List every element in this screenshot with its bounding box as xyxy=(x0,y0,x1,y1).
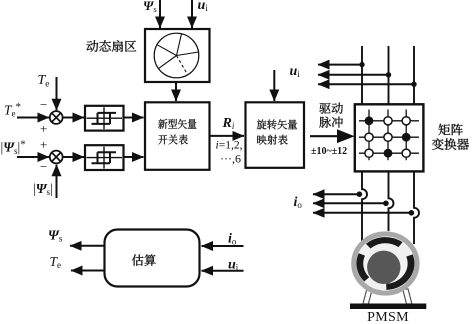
output phase line 1 with sensor loop xyxy=(362,171,367,242)
label 估算 (estimate) xyxy=(132,254,156,265)
PMSM stator arc left xyxy=(360,254,367,279)
current sensor dot phase 3 xyxy=(409,210,415,216)
wire drive pulses into matrix converter xyxy=(310,135,338,137)
label 矩阵 (matrix) xyxy=(438,124,462,136)
label 旋转矢量 (block line 1) xyxy=(257,119,297,129)
sector circle xyxy=(154,33,199,78)
wire io tap phase 2 xyxy=(313,202,386,204)
block matrix converter xyxy=(355,104,424,171)
wire hysteresis 1 to switching table xyxy=(124,117,144,119)
block estimator xyxy=(105,230,200,287)
sector boundary line 216deg xyxy=(159,56,177,69)
wire Ri switching table to mapping table xyxy=(211,135,245,137)
svg-text:i=1,2,: i=1,2, xyxy=(216,140,243,152)
wire junction 2 to hysteresis comparator 2 xyxy=(63,156,84,158)
wire hysteresis 2 to switching table xyxy=(124,156,144,158)
wire ui tap phase 2 xyxy=(318,74,389,76)
matrix switch node r3c1 (off) xyxy=(365,149,373,157)
wire Te* into summing junction 1 xyxy=(17,117,49,119)
block rotating vector mapping table xyxy=(246,102,305,168)
wire ui into sector block xyxy=(191,0,193,28)
svg-text:|Ψs|: |Ψs| xyxy=(33,181,53,197)
label 脉冲 (pulse) xyxy=(319,117,342,128)
wire Te estimate out xyxy=(71,270,104,272)
wire io tap phase 1 xyxy=(313,193,359,195)
summing junction 1 xyxy=(50,111,63,124)
output phase line 3 with sensor loop xyxy=(414,171,419,244)
svg-text:±10~±12: ±10~±12 xyxy=(311,146,347,157)
hysteresis comparator 2 xyxy=(85,145,124,170)
matrix switch node r2c1 (off) xyxy=(365,133,373,141)
block new vector switching table xyxy=(145,102,210,170)
junction dot phase 1 xyxy=(359,62,364,67)
label 开关表 (block line 2) xyxy=(158,135,187,145)
sector boundary line 151deg xyxy=(157,45,177,56)
wire ui tap phase 1 xyxy=(318,64,362,66)
sector boundary line 300deg xyxy=(177,56,188,75)
label 新型矢量 (block line 1) xyxy=(158,119,196,129)
block dynamic sector xyxy=(145,29,210,82)
sector boundary line 9deg xyxy=(177,52,199,56)
PMSM base bar xyxy=(350,304,426,310)
wire ui into estimator xyxy=(202,270,244,272)
wire |Ψs| feedback up into junction 2 xyxy=(56,165,58,198)
matrix switch node r1c2 (off) xyxy=(384,117,392,125)
wire io tap phase 3 xyxy=(313,212,411,214)
label 驱动 (drive) xyxy=(319,103,342,114)
wire Ψs estimate out xyxy=(70,245,104,247)
PMSM right leg xyxy=(403,289,412,304)
summing junction 2 xyxy=(50,151,63,164)
junction dot phase 3 xyxy=(411,82,416,87)
PMSM stator arc top xyxy=(368,240,400,246)
input phase line 3 xyxy=(413,46,415,104)
wire junction 1 to hysteresis comparator 1 xyxy=(63,117,84,119)
wire sector block to switching table xyxy=(175,83,177,102)
matrix converter switch grid lines xyxy=(359,110,419,161)
junction dot phase 2 xyxy=(386,72,391,77)
label 映射表 (block line 2) xyxy=(257,135,287,145)
svg-text:−: − xyxy=(40,97,47,112)
matrix switch node r2c3 (on) xyxy=(402,133,411,142)
current sensor dot phase 2 xyxy=(383,201,389,207)
input phase line 2 xyxy=(388,46,390,104)
matrix switch node r3c2 (on) xyxy=(384,149,393,158)
matrix switch node r1c1 (on) xyxy=(365,116,374,125)
output phase line 2 with sensor loop xyxy=(389,171,394,231)
svg-text:+: + xyxy=(40,137,47,152)
PMSM stator arc bottom-right xyxy=(386,256,411,287)
svg-text:···,6: ···,6 xyxy=(220,151,241,165)
PMSM rotor xyxy=(367,251,400,284)
input phase line 1 xyxy=(361,46,363,104)
current sensor dot phase 1 xyxy=(357,191,363,197)
matrix switch node r1c3 (off) xyxy=(402,117,410,125)
svg-text:+: + xyxy=(40,121,47,136)
wire ui into mapping table xyxy=(273,70,275,101)
svg-text:−: − xyxy=(40,159,47,174)
matrix switch node r2c2 (off) xyxy=(384,133,392,141)
wire io into estimator xyxy=(202,245,244,247)
wire Ψs into sector block xyxy=(159,0,161,28)
PMSM left leg xyxy=(363,289,372,304)
svg-text:PMSM: PMSM xyxy=(367,310,409,324)
wire |Ψs|* into summing junction 2 xyxy=(17,156,49,158)
label 动态扇区 (dynamic sector) xyxy=(86,40,136,52)
hysteresis comparator 1 xyxy=(85,106,124,131)
PMSM motor outer ring xyxy=(354,234,417,293)
wire ui tap phase 3 xyxy=(318,83,414,85)
label 变换器 (converter) xyxy=(432,138,469,150)
matrix switch node r3c3 (off) xyxy=(402,149,410,157)
wire Te down into summing junction 1 xyxy=(56,77,58,110)
sector boundary line 77deg xyxy=(177,34,182,56)
